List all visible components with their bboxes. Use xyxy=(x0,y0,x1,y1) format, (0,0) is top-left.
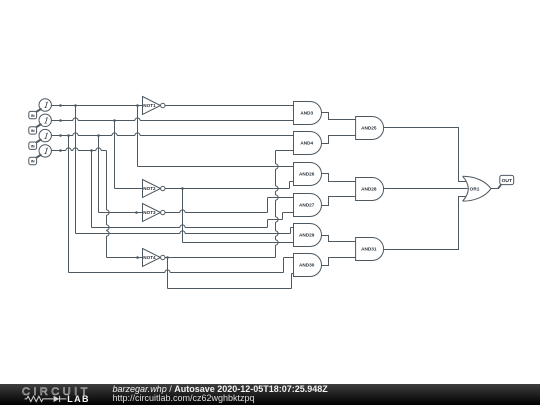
wire AND27.in2 stub xyxy=(283,212,294,214)
input source V2 (flag circle 1) xyxy=(39,114,51,126)
wire jog 219-212 xyxy=(282,213,284,220)
wire AND27.in1 feed xyxy=(268,197,294,199)
svg-text:IN: IN xyxy=(31,144,35,148)
inverter NOT3 xyxy=(143,204,161,222)
wire AND29 output to stage2 xyxy=(322,236,356,242)
svg-text:AND27: AND27 xyxy=(299,203,315,208)
wire AND30 output to stage2 xyxy=(322,258,356,266)
wire NOT2out jog up xyxy=(289,182,291,189)
wire net A row xyxy=(61,105,143,107)
svg-text:NOT4: NOT4 xyxy=(143,255,156,260)
node B flag junction xyxy=(59,119,62,122)
input source V3 (flag circle 1) xyxy=(39,129,51,141)
hop NOT3out over vNotB xyxy=(180,210,185,213)
svg-text:AND4: AND4 xyxy=(300,141,313,146)
wire NOT3 out xyxy=(165,212,268,214)
inverter NOT2 xyxy=(143,180,161,198)
svg-text:AND26: AND26 xyxy=(299,172,315,177)
wire B drop to NOT2 xyxy=(114,121,116,189)
wire AND30.in1 stub xyxy=(284,257,294,259)
hop 233row over vNotB xyxy=(180,231,185,234)
wire A drop to AND26 feed xyxy=(137,106,139,167)
svg-text:OR1: OR1 xyxy=(470,186,480,191)
svg-text:NOT3: NOT3 xyxy=(143,210,156,215)
hop 272row over v167.6 xyxy=(165,270,170,273)
IN flag 4 xyxy=(29,157,37,164)
wire 227 row xyxy=(92,227,268,229)
svg-text:AND31: AND31 xyxy=(361,247,377,252)
wire D drop to AND27 feed xyxy=(91,151,93,228)
node D flag junction xyxy=(59,149,62,152)
wire C drop to NOT3 xyxy=(98,136,100,213)
hop vNotD over 219 row xyxy=(276,217,279,222)
node NOT4 input dot xyxy=(136,256,139,259)
svg-text:NOT2: NOT2 xyxy=(143,186,156,191)
wire OR1 output xyxy=(491,188,498,190)
svg-text:OUT: OUT xyxy=(502,178,512,184)
hop vNotD over 197 row xyxy=(276,195,279,200)
hop C over v75.8 xyxy=(73,133,78,136)
wire net C row xyxy=(61,135,294,137)
junction NOT2 out branch xyxy=(181,187,184,190)
wire net B row xyxy=(61,120,294,122)
node NOT3 input dot xyxy=(135,211,138,214)
wire NOT2 out xyxy=(165,188,290,190)
svg-text:IN: IN xyxy=(31,114,35,118)
hop D over v98.9 xyxy=(96,148,101,151)
svg-text:IN: IN xyxy=(31,129,35,133)
wire NOT4 out xyxy=(165,257,276,259)
wire jog 233-227 xyxy=(290,228,292,234)
node C flag junction xyxy=(59,134,62,137)
wire NOT4 input xyxy=(107,257,143,259)
wire AND3 output to stage2 xyxy=(322,113,356,120)
wire AND28 output to OR1 xyxy=(382,188,467,190)
IN flag 3 xyxy=(29,142,37,149)
wire jog 272-257 xyxy=(283,258,285,273)
wire AND27 output to stage2 xyxy=(322,197,356,206)
wire AND26.in1 feed xyxy=(138,166,294,168)
IN flag 1 xyxy=(29,111,37,118)
wire notD drop to AND30.in2 xyxy=(167,258,169,289)
wire A drop to AND29 feed xyxy=(75,106,77,234)
svg-text:LAB: LAB xyxy=(67,394,90,404)
hop B over v75.8 xyxy=(73,118,78,121)
hop vD2 over NOT3 row xyxy=(107,210,110,215)
hop vD2 over 233 row xyxy=(107,231,110,236)
or-gate OR1 xyxy=(463,176,491,201)
wire AND29.in1 stub xyxy=(291,227,294,229)
inverter NOT4 xyxy=(143,249,161,267)
junction C->v98.9 xyxy=(97,134,100,137)
wire notB drop xyxy=(182,189,184,243)
wire AND25 output to OR1 xyxy=(382,128,466,182)
and-gate AND31 xyxy=(356,238,384,261)
wire NOT2 input xyxy=(115,188,143,190)
hop vNotD over 166 row xyxy=(276,164,279,169)
wire 233 row xyxy=(76,233,291,235)
hop D over v75.8 xyxy=(73,148,78,151)
junction C->v68.3 xyxy=(67,134,70,137)
hop vNotD over 233 row xyxy=(276,231,279,236)
and-gate AND28 xyxy=(356,178,384,201)
wire jog 227-219 xyxy=(267,220,269,228)
and-gate AND3 xyxy=(294,102,322,125)
svg-text:AND3: AND3 xyxy=(300,111,313,116)
svg-text:IN: IN xyxy=(31,160,35,164)
footer bar xyxy=(0,384,540,405)
wire jog 288-273 xyxy=(291,274,293,289)
wire AND30.in2 stub xyxy=(292,273,294,275)
wire AND26 output to stage2 xyxy=(322,174,356,182)
hop C over v114.2 xyxy=(112,133,117,136)
and-gate AND27 xyxy=(294,194,322,217)
wire AND29.in2 feed xyxy=(183,242,294,244)
input source V1 (flag circle 1) xyxy=(39,99,51,111)
OUT flag xyxy=(498,185,501,189)
junction A->v75.8 xyxy=(74,104,77,107)
wire NOT3 input xyxy=(99,212,143,214)
svg-text:AND29: AND29 xyxy=(299,233,315,238)
junction NOT4 out branch xyxy=(166,256,169,259)
and-gate AND4 xyxy=(294,132,322,155)
and-gate AND29 xyxy=(294,224,322,247)
wire 219 jog row xyxy=(268,219,283,221)
hop vNotD over NOT2 row xyxy=(276,186,279,191)
svg-text:AND28: AND28 xyxy=(361,187,377,192)
wire C drop to AND30 feed xyxy=(68,136,70,273)
wire AND4 output to stage2 xyxy=(322,136,356,144)
svg-text:AND25: AND25 xyxy=(361,126,377,131)
svg-text:AND30: AND30 xyxy=(299,263,315,268)
input source V4 (flag circle 1) xyxy=(39,145,51,157)
wire NOT1 out to AND3 xyxy=(165,105,294,107)
wire net D row xyxy=(61,150,107,152)
wire 272 row xyxy=(69,272,284,274)
wire notD rise to AND4.in2 xyxy=(275,151,277,258)
hop vNotD over 242 row xyxy=(276,240,279,245)
hop C over v137 xyxy=(135,133,140,136)
IN flag 2 xyxy=(29,127,37,134)
and-gate AND25 xyxy=(356,117,384,140)
wire NOT3 jog up xyxy=(267,198,269,213)
junction D->v91.7 xyxy=(90,149,93,152)
wire AND31 output to OR1 xyxy=(382,197,466,250)
svg-text:NOT1: NOT1 xyxy=(143,103,156,108)
and-gate AND26 xyxy=(294,163,322,186)
wire AND26.in2 stub xyxy=(290,181,294,183)
and-gate AND30 xyxy=(294,254,322,277)
wire D drop to NOT4 xyxy=(106,151,108,258)
hop D over v68.3 xyxy=(66,148,71,151)
node A flag junction xyxy=(59,104,62,107)
junction A->v137 xyxy=(136,104,139,107)
junction B->v114.2 xyxy=(113,119,116,122)
wire AND4.in2 stub xyxy=(276,150,294,152)
hop B over v137 xyxy=(135,118,140,121)
hop vD2 over 227 row xyxy=(107,225,110,230)
wire AND30.in2 feed xyxy=(168,288,292,290)
inverter NOT1 xyxy=(143,97,161,115)
hop 227row over vNotB xyxy=(180,225,185,228)
